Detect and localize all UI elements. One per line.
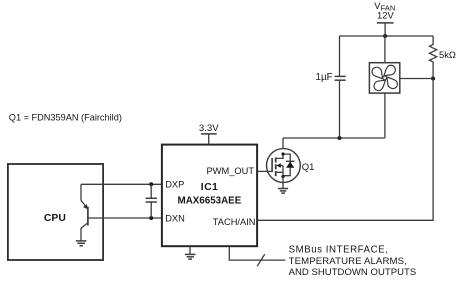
svg-text:Q1 = FDN359AN (Fairchild): Q1 = FDN359AN (Fairchild)	[9, 112, 122, 122]
transistor Q (thermal PNP)	[81, 184, 88, 240]
wire VFAN rail	[340, 35, 434, 37]
wire fan bottom stem	[384, 93, 386, 138]
junction DXN/cap	[149, 216, 153, 220]
CPU box	[8, 164, 103, 260]
wire drain to fan bottom	[283, 137, 385, 139]
junction tach/resistor	[431, 77, 435, 81]
ground (Q1 source)	[278, 189, 288, 194]
wire fan tach output	[400, 78, 433, 80]
svg-text:DXP: DXP	[165, 180, 184, 190]
svg-text:5kΩ: 5kΩ	[439, 49, 456, 60]
svg-text:TEMPERATURE ALARMS,: TEMPERATURE ALARMS,	[289, 256, 407, 267]
SMBus bus wire	[229, 246, 285, 260]
supply VFAN bar	[377, 23, 394, 36]
wire fan top stem	[384, 36, 386, 63]
fan blades	[371, 65, 398, 92]
capacitor 1uF	[335, 76, 346, 80]
transistor Q1 N-MOSFET	[267, 149, 301, 189]
fan box	[369, 63, 399, 93]
svg-text:1µF: 1µF	[316, 72, 333, 83]
svg-text:3.3V: 3.3V	[199, 123, 219, 134]
bus width slash	[257, 254, 265, 266]
svg-text:TACH/AIN: TACH/AIN	[213, 217, 256, 227]
wire cap branch lower	[339, 80, 341, 138]
svg-text:MAX6653AEE: MAX6653AEE	[178, 195, 242, 206]
svg-text:DXN: DXN	[165, 213, 185, 223]
svg-text:Q1: Q1	[302, 162, 315, 173]
junction DXP/cap	[149, 182, 153, 186]
wire DXP	[81, 183, 162, 185]
supply 3.3V bar	[201, 134, 217, 145]
svg-text:AND SHUTDOWN OUTPUTS: AND SHUTDOWN OUTPUTS	[289, 267, 417, 278]
junction VFAN	[383, 34, 387, 38]
svg-text:SMBus INTERFACE,: SMBus INTERFACE,	[289, 245, 389, 256]
svg-text:IC1: IC1	[201, 182, 219, 193]
svg-text:PWM_OUT: PWM_OUT	[206, 166, 254, 176]
wire DXN	[88, 217, 162, 219]
wire TACH/AIN run	[257, 79, 433, 221]
svg-text:12V: 12V	[377, 10, 394, 21]
capacitor across DXP-DXN	[146, 184, 157, 218]
IC1 box	[162, 145, 257, 247]
junction cap branch / drain wire	[338, 136, 342, 140]
wire cap branch upper	[339, 36, 341, 76]
resistor 5k	[430, 36, 437, 79]
svg-text:CPU: CPU	[44, 213, 66, 224]
ground (IC)	[185, 246, 196, 259]
ground (CPU collector)	[76, 241, 87, 246]
wire drain riser	[282, 138, 284, 149]
wire PWM_OUT to gate	[257, 170, 272, 172]
SMBus text block	[289, 245, 417, 278]
